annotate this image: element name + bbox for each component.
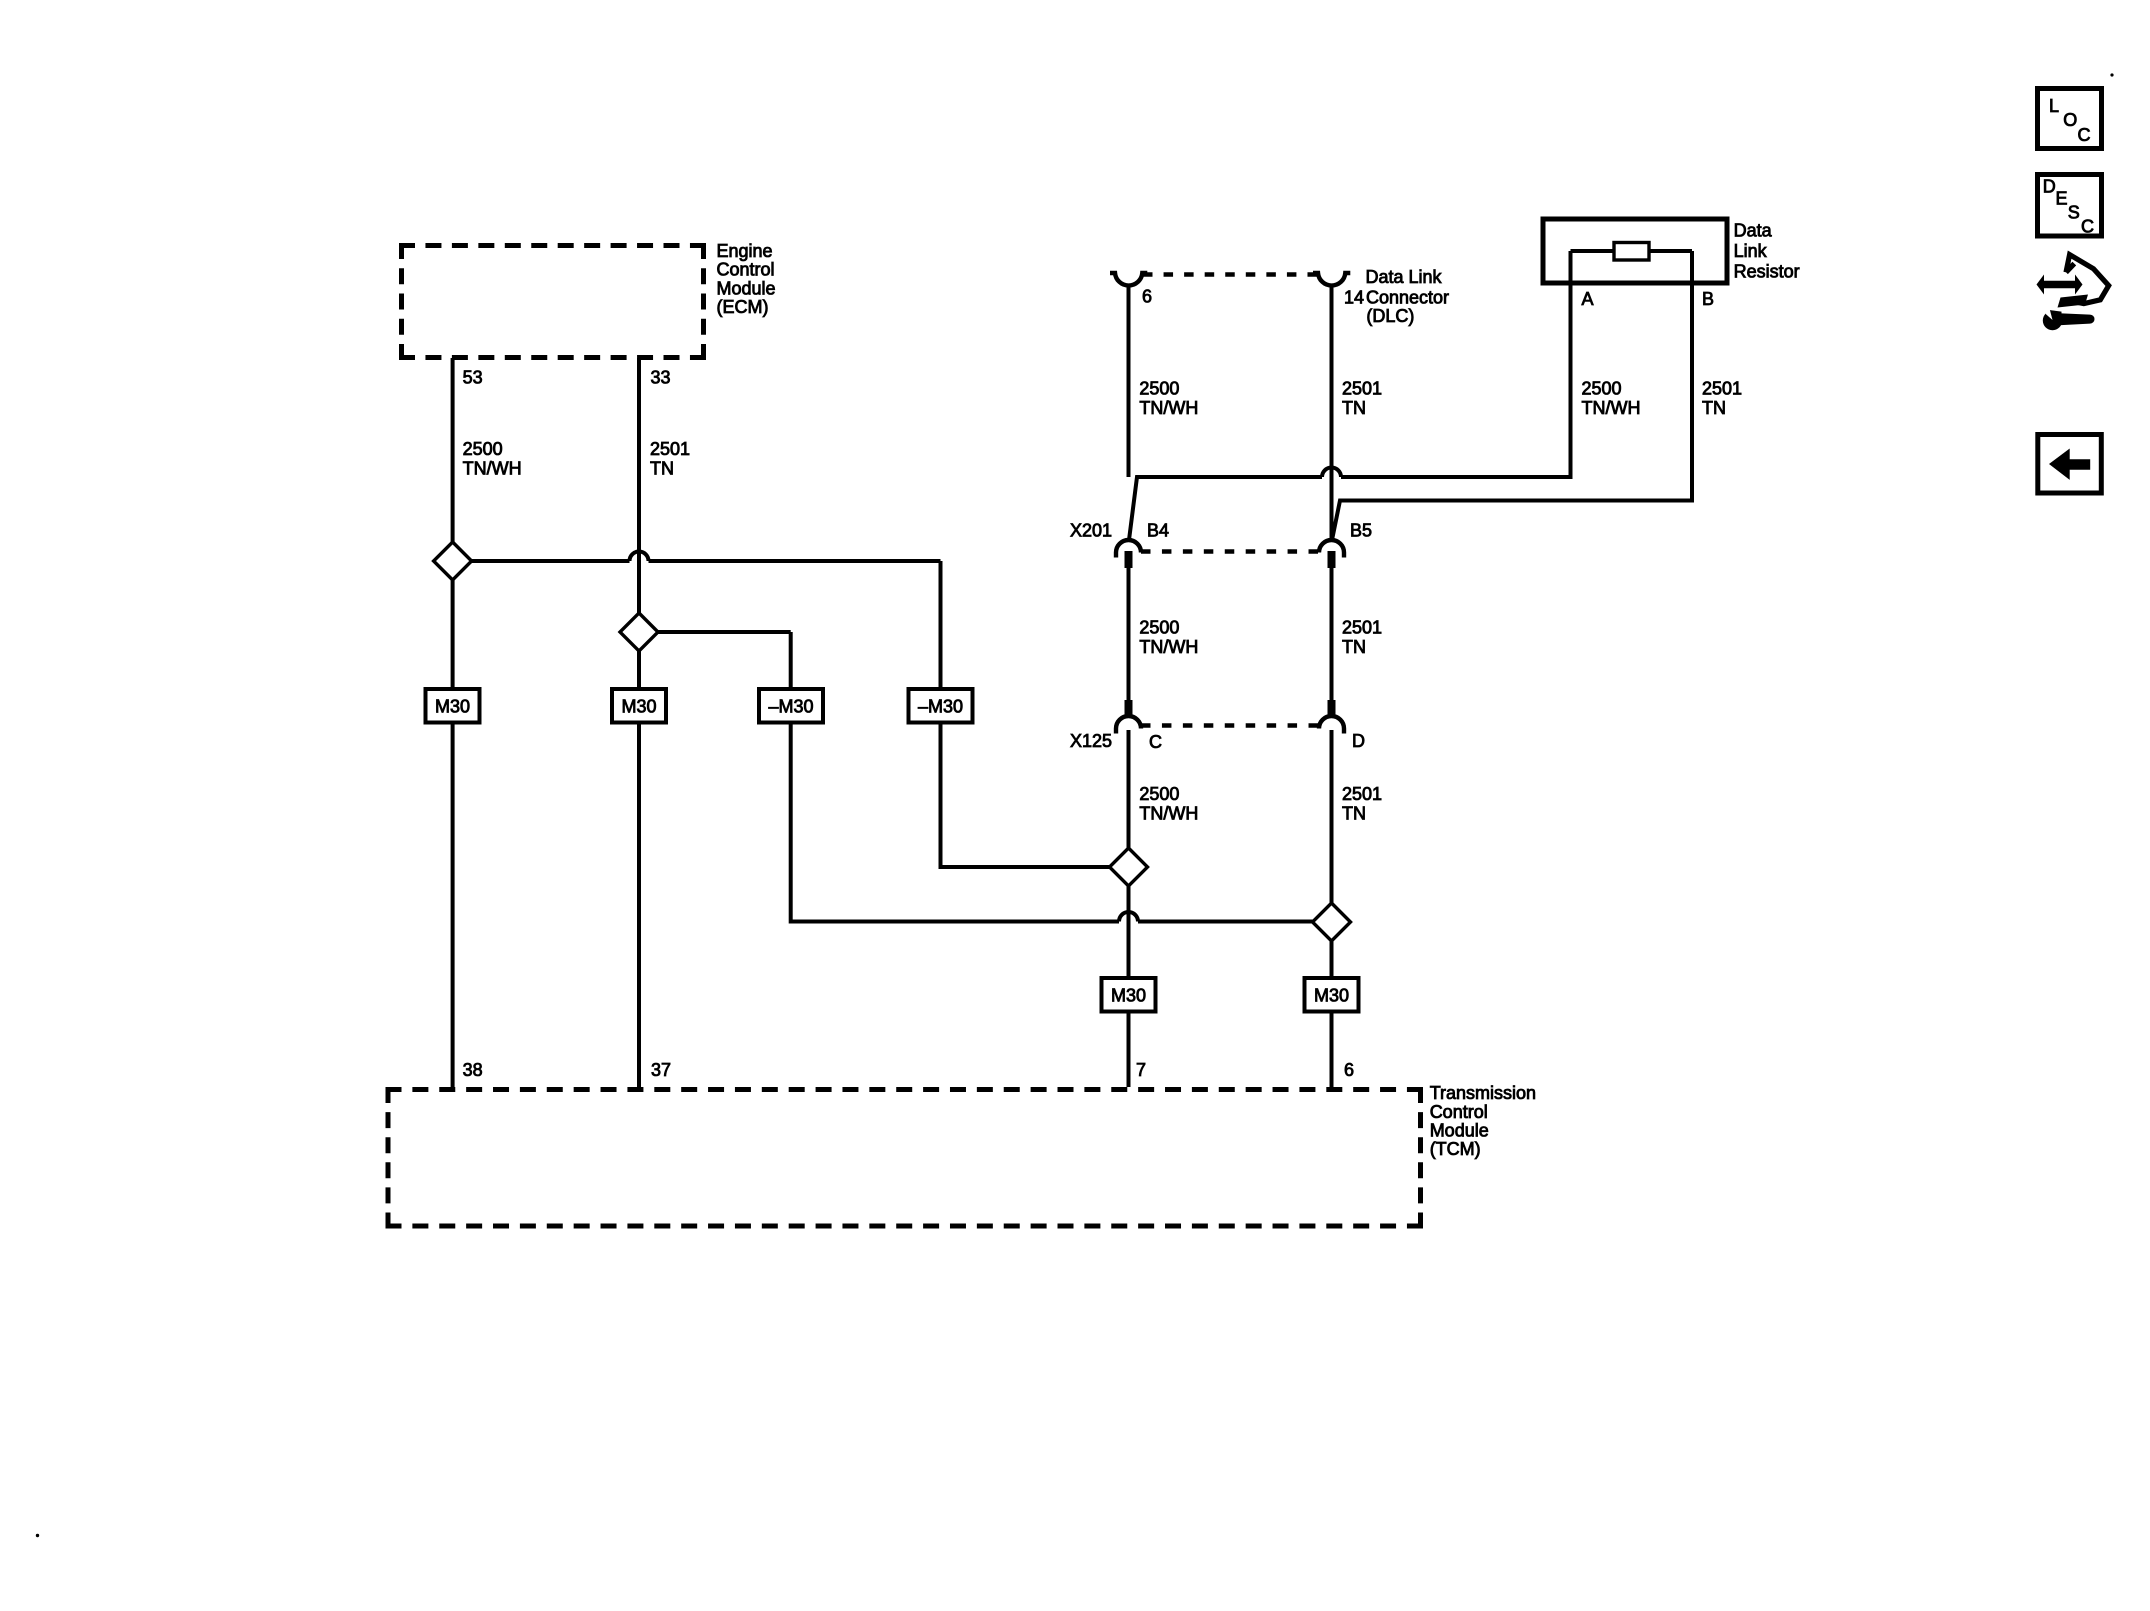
svg-text:M30: M30 [1111,985,1146,1005]
svg-text:33: 33 [651,367,671,387]
svg-text:2500: 2500 [1139,784,1179,804]
svg-text:Resistor: Resistor [1734,261,1800,281]
svg-text:TN/WH: TN/WH [1582,398,1641,418]
svg-text:(DLC): (DLC) [1366,306,1414,326]
svg-text:2500: 2500 [1139,379,1179,399]
svg-text:C: C [1149,732,1162,752]
svg-text:Data: Data [1734,221,1773,241]
svg-text:E: E [2056,189,2068,209]
svg-text:C: C [2081,216,2094,236]
svg-text:Module: Module [1430,1121,1489,1141]
svg-text:B: B [1702,289,1714,309]
svg-text:TN/WH: TN/WH [1139,398,1198,418]
svg-text:X201: X201 [1070,520,1112,540]
svg-text:L: L [2049,96,2059,116]
svg-text:2500: 2500 [1139,618,1179,638]
svg-text:TN: TN [1702,398,1726,418]
svg-text:M30: M30 [1314,985,1349,1005]
svg-text:2501: 2501 [1342,784,1382,804]
svg-text:–M30: –M30 [768,696,813,716]
svg-text:14: 14 [1344,288,1364,308]
svg-text:2500: 2500 [463,439,503,459]
svg-text:Control: Control [1430,1102,1488,1122]
svg-text:2500: 2500 [1582,379,1622,399]
svg-text:Data Link: Data Link [1366,267,1443,287]
svg-text:–M30: –M30 [918,696,963,716]
svg-text:Transmission: Transmission [1430,1083,1536,1103]
svg-text:A: A [1582,289,1594,309]
svg-text:(TCM): (TCM) [1430,1139,1481,1159]
svg-text:B5: B5 [1350,520,1372,540]
svg-text:TN/WH: TN/WH [463,458,522,478]
svg-text:TN: TN [1342,398,1366,418]
svg-text:D: D [1352,731,1365,751]
svg-text:Connector: Connector [1366,288,1449,308]
svg-text:M30: M30 [621,696,656,716]
svg-text:38: 38 [463,1060,483,1080]
svg-text:B4: B4 [1147,520,1169,540]
svg-text:TN: TN [1342,803,1366,823]
svg-text:S: S [2068,202,2080,222]
svg-text:53: 53 [463,367,483,387]
svg-text:2501: 2501 [1702,379,1742,399]
svg-text:6: 6 [1142,287,1152,307]
svg-text:2501: 2501 [1342,379,1382,399]
svg-text:C: C [2078,125,2091,145]
svg-text:TN: TN [1342,637,1366,657]
svg-text:TN/WH: TN/WH [1139,637,1198,657]
svg-text:TN: TN [650,458,674,478]
svg-text:2501: 2501 [650,439,690,459]
svg-text:6: 6 [1344,1060,1354,1080]
svg-text:D: D [2043,177,2056,197]
svg-text:7: 7 [1136,1060,1146,1080]
svg-text:2501: 2501 [1342,618,1382,638]
svg-text:TN/WH: TN/WH [1139,803,1198,823]
svg-text:(ECM): (ECM) [717,297,769,317]
svg-text:X125: X125 [1070,731,1112,751]
svg-text:Control: Control [717,260,775,280]
svg-text:37: 37 [651,1060,671,1080]
svg-text:Link: Link [1734,241,1768,261]
svg-text:Engine: Engine [717,241,773,261]
svg-text:Module: Module [717,278,776,298]
svg-text:M30: M30 [435,696,470,716]
svg-text:O: O [2063,110,2077,130]
